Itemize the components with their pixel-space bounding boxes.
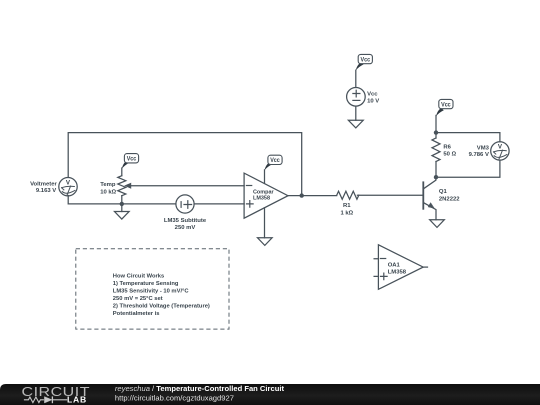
svg-text:LAB: LAB [67, 395, 87, 405]
resistor R6 zigzag [432, 138, 440, 162]
op-amp OA1 triangle [374, 245, 427, 289]
Vcc flag at supply source [356, 54, 373, 70]
svg-text:250 mV = 25°C set: 250 mV = 25°C set [113, 296, 163, 302]
op-amp Vcc power wire [264, 170, 266, 184]
svg-text:Vcc: Vcc [441, 102, 451, 108]
potentiometer bottom wire [121, 196, 123, 212]
potentiometer wiper arrow [125, 183, 131, 188]
LM35 substitute source circle [176, 195, 194, 213]
op-amp negative supply wire [264, 208, 266, 238]
ground under potentiometer [115, 212, 130, 220]
wire LM35 right to op-amp + input [194, 203, 244, 205]
transistor Q1 base bar [422, 182, 424, 209]
op-amp U1 triangle [244, 173, 288, 218]
wire source to ground [355, 106, 357, 120]
op-amp minus sign [246, 185, 251, 187]
junction dot output node [300, 193, 304, 197]
footer bar [0, 384, 540, 405]
voltmeter VM1 circle [59, 178, 77, 196]
svg-text:LM35 Subtitute: LM35 Subtitute [164, 218, 207, 224]
OA1 input stubs [374, 259, 378, 277]
svg-text:Vcc: Vcc [367, 91, 378, 97]
svg-text:Vcc: Vcc [361, 57, 371, 63]
svg-text:50 Ω: 50 Ω [443, 152, 456, 158]
Vcc flag at op-amp [265, 155, 283, 170]
svg-text:250 mV: 250 mV [175, 225, 196, 231]
svg-text:Vcc: Vcc [270, 158, 280, 164]
potentiometer Temp wire from Vcc flag [121, 168, 123, 176]
footer logo resistor-diode glyph [24, 396, 67, 403]
voltmeter VM1 gauge [62, 186, 75, 195]
wire op-amp output to R1 [288, 195, 337, 197]
Vcc source minus sign [353, 99, 360, 101]
svg-text:2N2222: 2N2222 [439, 196, 460, 202]
OA1 output stub [423, 266, 427, 268]
svg-text:V: V [498, 144, 503, 151]
svg-text:LM35 Sensitivity - 10 mV/°C: LM35 Sensitivity - 10 mV/°C [113, 289, 190, 295]
svg-text:9.786 V: 9.786 V [469, 152, 489, 158]
ground under op-amp [258, 238, 273, 246]
svg-text:How Circuit Works: How Circuit Works [113, 274, 164, 280]
transistor Q1 collector [424, 177, 436, 189]
svg-text:10 V: 10 V [367, 99, 379, 105]
wire R1 to Q1 base [357, 194, 423, 196]
svg-text:9.163 V: 9.163 V [36, 188, 56, 194]
svg-text:Potentialmeter is: Potentialmeter is [113, 311, 160, 317]
Vcc supply source circle [347, 88, 366, 107]
svg-text:Voltmeter: Voltmeter [30, 182, 57, 188]
wire VM3 bottom to node [436, 160, 500, 177]
wire R6 bottom to node [435, 162, 437, 178]
OA1 minus sign [380, 258, 385, 260]
svg-text:10 kΩ: 10 kΩ [100, 189, 116, 195]
svg-text:1 kΩ: 1 kΩ [340, 210, 353, 216]
svg-text:2) Threshold Voltage (Temperat: 2) Threshold Voltage (Temperature) [113, 304, 210, 310]
svg-text:Q1: Q1 [439, 189, 448, 195]
LM35 plus sign [184, 201, 192, 209]
OA1 plus sign [381, 273, 388, 280]
transistor Q1 emitter [424, 203, 436, 220]
wire Vcc flag to R6 node [435, 115, 437, 138]
transistor Q1 emitter arrow [428, 203, 434, 208]
svg-text:Vcc: Vcc [127, 157, 137, 163]
LM35 minus sign (rotated) [180, 202, 182, 208]
svg-text:R6: R6 [443, 145, 451, 151]
op-amp plus sign [247, 201, 254, 208]
junction dot pot bottom [120, 202, 124, 206]
potentiometer Temp zigzag [118, 176, 126, 196]
svg-text:1) Temperature Sensing: 1) Temperature Sensing [113, 281, 179, 287]
svg-text:reyeschua / Temperature-Contro: reyeschua / Temperature-Controlled Fan C… [115, 384, 285, 393]
svg-text:VM3: VM3 [477, 146, 490, 152]
wire node to VM3 top [436, 133, 500, 142]
junction dot R6 top node [434, 130, 438, 134]
svg-text:http://circuitlab.com/cgztduxa: http://circuitlab.com/cgztduxagd927 [115, 394, 234, 403]
ground under Q1 [430, 220, 445, 228]
Vcc flag at R6 [436, 99, 453, 116]
junction dot R6 bottom node [434, 175, 438, 179]
ground under Vcc source [348, 120, 363, 128]
svg-text:R1: R1 [343, 203, 351, 209]
wire wiper to op-amp - input [130, 185, 245, 187]
voltmeter VM3 gauge [494, 150, 507, 159]
svg-text:Temp: Temp [100, 182, 116, 188]
voltmeter VM3 circle [491, 142, 509, 160]
svg-text:V: V [66, 179, 71, 186]
wire Vcc flag to source [355, 70, 357, 87]
Vcc flag at potentiometer [122, 154, 139, 169]
Vcc source plus sign [353, 90, 360, 97]
annotation dashed box [76, 249, 229, 329]
annotation text [113, 274, 210, 318]
resistor R1 zigzag [337, 191, 359, 199]
svg-text:LM358: LM358 [388, 270, 407, 276]
wire top feedback from voltmeter top to output node [68, 133, 302, 196]
svg-text:LM358: LM358 [253, 196, 271, 202]
svg-text:OA1: OA1 [388, 263, 401, 269]
wire voltmeter bottom to lower net [68, 196, 176, 204]
